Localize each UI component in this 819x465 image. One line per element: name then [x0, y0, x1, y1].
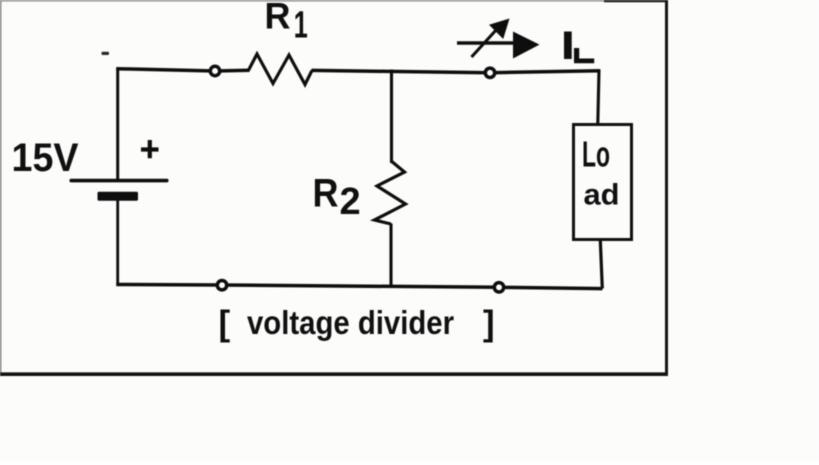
svg-text:R: R	[265, 0, 291, 37]
node: top-right junction	[485, 68, 494, 77]
svg-text:voltage divider: voltage divider	[247, 304, 454, 341]
wire: load branch upper	[598, 70, 599, 125]
svg-text:1: 1	[294, 4, 308, 46]
wire: R2 branch lower	[389, 224, 392, 289]
label IL	[564, 32, 594, 64]
wire: load branch lower	[600, 240, 602, 289]
node: bottom-left junction	[217, 281, 226, 290]
svg-text:2: 2	[340, 181, 361, 223]
decorative scan frame + marks (unlabeled)	[0, 0, 667, 2]
label: Load text	[582, 133, 620, 211]
caption: [ voltage divider ]	[219, 304, 495, 343]
node: bottom-right junction	[494, 283, 503, 292]
svg-text:15V: 15V	[12, 136, 79, 180]
resistor R2	[375, 162, 406, 225]
wire: top rail left segment (corner to R1)	[116, 69, 249, 71]
svg-text:[: [	[219, 304, 231, 343]
resistor R1	[249, 54, 313, 85]
svg-text:R: R	[313, 172, 339, 216]
svg-text:Lo: Lo	[582, 133, 610, 174]
svg-text:ad: ad	[584, 178, 620, 211]
label R2	[313, 172, 361, 223]
label R1	[265, 0, 308, 46]
current arrow IL (variable arrow symbol)	[457, 19, 540, 59]
node: top-left junction	[210, 66, 219, 75]
svg-text:]: ]	[483, 304, 495, 343]
wire: battery negative lead (left vertical, bottom)	[116, 200, 119, 285]
wire: bottom rail	[116, 285, 602, 289]
label: battery + polarity	[141, 140, 159, 158]
wire: battery positive lead (left vertical, top)	[116, 67, 119, 180]
load box	[574, 125, 632, 240]
wire: R2 branch upper	[390, 70, 393, 164]
battery V1 15V (plates)	[70, 179, 169, 201]
wire: top rail right segment (R1 to load corner)	[312, 70, 601, 72]
